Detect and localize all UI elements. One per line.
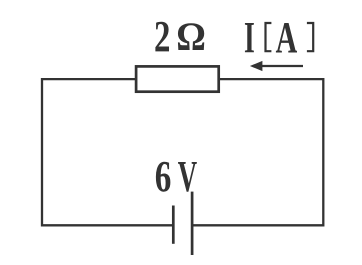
current label: [ — [266, 23, 272, 51]
svg-text:A: A — [276, 13, 298, 62]
current arrow (points left) — [259, 65, 303, 67]
svg-text:6: 6 — [155, 152, 172, 201]
svg-text:Ω: Ω — [176, 14, 206, 59]
svg-text:V: V — [178, 152, 198, 201]
resistor R1 (2 ohm) body — [136, 66, 219, 91]
current label: ] — [307, 23, 313, 51]
svg-text:2: 2 — [154, 12, 170, 61]
wire: circuit loop (top, left, right sides and bottom up to battery plates) — [42, 79, 323, 225]
svg-text:I: I — [244, 13, 255, 62]
battery V1: positive plate (long) — [191, 192, 194, 255]
battery V1: negative plate (short) — [172, 206, 175, 244]
